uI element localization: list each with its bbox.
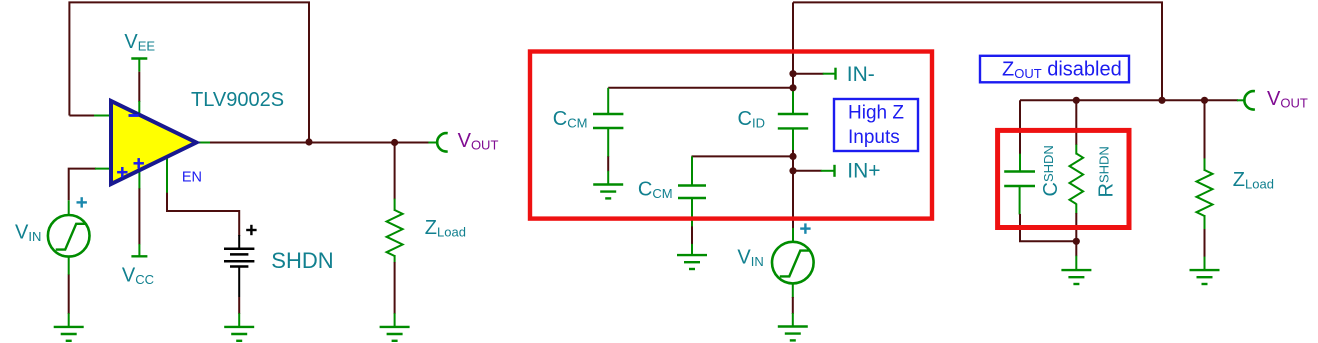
svg-text:CCM: CCM	[553, 108, 588, 131]
svg-text:CCM: CCM	[638, 179, 673, 202]
svg-text:TLV9002S: TLV9002S	[191, 89, 284, 111]
svg-text:ZLoad: ZLoad	[425, 217, 466, 240]
svg-text:VOUT: VOUT	[1267, 88, 1308, 111]
svg-text:IN+: IN+	[847, 160, 880, 183]
svg-text:IN-: IN-	[847, 63, 875, 86]
svg-text:VIN: VIN	[15, 222, 41, 245]
svg-text:EN: EN	[182, 169, 202, 185]
svg-text:VEE: VEE	[124, 31, 155, 54]
svg-text:VCC: VCC	[122, 265, 154, 288]
svg-text:SHDN: SHDN	[271, 248, 333, 273]
svg-text:CSHDN: CSHDN	[1040, 145, 1062, 196]
svg-text:VOUT: VOUT	[458, 130, 499, 153]
svg-text:CID: CID	[738, 108, 765, 131]
svg-text:VIN: VIN	[737, 247, 763, 270]
svg-text:High Z: High Z	[848, 102, 904, 123]
svg-text:RSHDN: RSHDN	[1096, 146, 1118, 197]
svg-text:ZOUT disabled: ZOUT disabled	[1002, 59, 1122, 82]
svg-text:ZLoad: ZLoad	[1233, 169, 1274, 192]
svg-text:Inputs: Inputs	[848, 127, 900, 148]
